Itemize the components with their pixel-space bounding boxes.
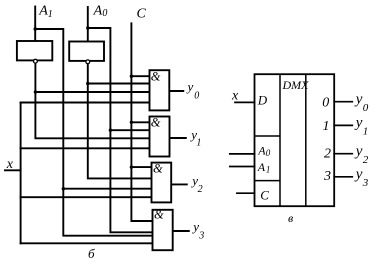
wire A0 direct bypass	[88, 28, 153, 232]
svg-text:0: 0	[322, 96, 329, 111]
wire notA1 to gate D1	[35, 91, 149, 93]
wire output y2	[171, 183, 187, 185]
svg-text:D: D	[257, 93, 268, 108]
svg-text:A: A	[38, 4, 48, 19]
inverter U2 (NOT A0)	[69, 42, 104, 61]
DMX divider right	[305, 74, 307, 206]
junction dot notA1 gate D1	[34, 90, 37, 93]
inverter U1 bubble	[34, 59, 38, 63]
svg-text:DMX: DMX	[282, 78, 310, 92]
wire notA1 vertical	[35, 64, 149, 139]
junction dot A0 gate D2	[109, 129, 112, 132]
svg-text:1: 1	[266, 165, 271, 175]
svg-text:б: б	[88, 246, 95, 261]
svg-text:y: y	[354, 167, 363, 183]
wire C to gate D3	[131, 166, 151, 168]
AND gate D3	[152, 163, 172, 203]
svg-text:0: 0	[363, 102, 369, 114]
junction dot A0	[86, 26, 89, 29]
wire output 1	[334, 124, 352, 126]
AND gate D4	[153, 210, 173, 250]
junction dot notA0 gate D1	[86, 82, 89, 85]
wire output y3	[173, 230, 189, 232]
wire C to gate D2	[131, 121, 149, 123]
svg-text:1: 1	[363, 126, 369, 138]
wire x to gate D4	[21, 242, 153, 244]
wire x to gate D3	[21, 196, 152, 198]
svg-text:A: A	[257, 160, 266, 174]
wire C input DMX	[237, 192, 255, 194]
svg-text:1: 1	[196, 138, 201, 149]
svg-text:C: C	[137, 7, 147, 22]
wire A0 input DMX	[230, 153, 255, 155]
wire C to gate D1	[131, 75, 149, 77]
svg-text:y: y	[354, 115, 363, 131]
svg-text:3: 3	[362, 177, 369, 189]
wire A0 input	[87, 7, 89, 42]
wire notA0 vertical	[88, 64, 152, 178]
wire notA0 to gate D1	[88, 83, 150, 85]
junction dot C gate D1	[130, 75, 133, 78]
wire output 3	[334, 176, 352, 178]
svg-text:2: 2	[198, 184, 203, 195]
svg-text:2: 2	[324, 147, 331, 162]
inverter U2 bubble	[86, 60, 90, 64]
svg-text:1: 1	[323, 119, 330, 134]
AND gate D1	[150, 70, 170, 110]
svg-text:0: 0	[266, 148, 271, 158]
DMX divider A/C	[255, 180, 281, 182]
svg-text:0: 0	[102, 8, 107, 19]
wire A1 input	[34, 7, 36, 42]
junction dot C gate D3	[130, 165, 133, 168]
wire A1 direct bypass	[35, 29, 152, 236]
svg-text:&: &	[151, 70, 161, 84]
svg-text:C: C	[260, 187, 269, 202]
DMX divider left	[279, 74, 281, 206]
wire D input	[235, 101, 255, 103]
wire A1 to gate D3	[63, 188, 151, 190]
svg-text:y: y	[186, 79, 194, 94]
svg-text:A: A	[93, 3, 103, 18]
junction dot C gate D2	[130, 121, 133, 124]
AND gate D2	[150, 117, 170, 157]
svg-text:в: в	[288, 211, 293, 225]
demultiplexer DMX block	[255, 74, 335, 206]
wire output y0	[169, 90, 183, 92]
svg-text:0: 0	[194, 91, 199, 102]
svg-text:y: y	[354, 144, 363, 160]
junction dot A1	[34, 27, 37, 30]
svg-text:3: 3	[198, 231, 204, 242]
svg-text:1: 1	[48, 9, 53, 20]
wire output 2	[334, 153, 352, 155]
svg-text:y: y	[191, 219, 199, 234]
wire A0 to gate D2	[110, 129, 149, 131]
wire x to gate D2	[21, 147, 150, 149]
inverter U1 (NOT A1)	[17, 41, 52, 60]
wire output y1	[170, 137, 186, 139]
wire x to gate D1	[21, 102, 150, 104]
wire output 0	[334, 101, 352, 103]
wire A1 input DMX	[230, 166, 255, 168]
svg-text:2: 2	[363, 154, 369, 166]
svg-text:&: &	[154, 207, 164, 221]
junction dot A1 gate D3	[62, 187, 65, 190]
svg-text:x: x	[231, 89, 239, 104]
wire x input stub	[5, 169, 21, 171]
svg-text:x: x	[6, 157, 14, 172]
wire C input	[131, 23, 152, 221]
svg-text:y: y	[354, 92, 363, 108]
wire x vertical bus	[20, 103, 22, 244]
svg-text:&: &	[153, 162, 163, 176]
svg-text:&: &	[151, 115, 161, 129]
DMX divider D/A	[255, 135, 281, 137]
svg-text:3: 3	[323, 169, 331, 184]
